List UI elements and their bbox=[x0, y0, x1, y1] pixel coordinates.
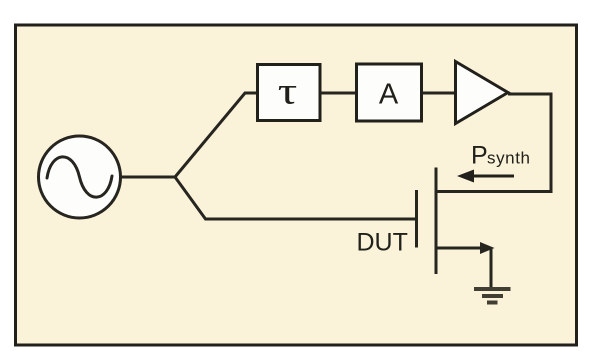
svg-text:DUT: DUT bbox=[357, 229, 408, 257]
arrow power flow left bbox=[470, 175, 514, 178]
wire amplifier output to DUT drain bbox=[435, 94, 552, 192]
svg-text:τ: τ bbox=[278, 71, 298, 113]
svg-text:A: A bbox=[379, 79, 399, 111]
sine wave bbox=[47, 157, 112, 197]
wire source to branch node bbox=[121, 176, 176, 179]
wire A box to amplifier bbox=[422, 92, 456, 95]
transistor Q1 channel bar bbox=[435, 168, 438, 275]
svg-text:P: P bbox=[471, 142, 488, 170]
wire branch to tau box bbox=[175, 93, 256, 177]
wire source to ground bbox=[490, 249, 493, 288]
amplifier U1 bbox=[456, 62, 509, 124]
transistor Q1 gate bar bbox=[415, 190, 418, 248]
wire DUT source with arrow bbox=[436, 247, 481, 250]
wire tau box to A box bbox=[321, 92, 356, 95]
source V1 bbox=[39, 136, 121, 218]
ground bbox=[474, 289, 511, 303]
svg-text:synth: synth bbox=[487, 149, 530, 168]
wire branch to DUT gate bbox=[175, 177, 415, 219]
arrow source current bbox=[480, 242, 495, 254]
attenuator box A bbox=[357, 64, 422, 121]
delay box tau bbox=[258, 65, 321, 121]
